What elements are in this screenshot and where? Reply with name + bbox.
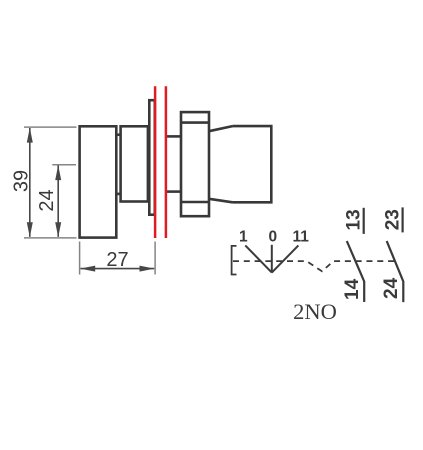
nut bottom band line — [181, 201, 209, 204]
contact NO1 blade and terminal 14 lead — [347, 241, 364, 302]
button cap — [80, 126, 117, 237]
svg-text:11: 11 — [293, 229, 310, 246]
svg-text:24: 24 — [381, 277, 402, 299]
svg-text:2NO: 2NO — [293, 299, 337, 324]
svg-text:14: 14 — [342, 278, 363, 300]
extension tick (24) — [52, 164, 76, 166]
svg-text:24: 24 — [36, 189, 58, 211]
arrow 27 right — [140, 266, 155, 272]
bezel — [121, 126, 148, 201]
arrow 24 down — [55, 222, 61, 237]
dimension line 24 — [57, 166, 59, 237]
svg-text:1: 1 — [239, 229, 248, 246]
svg-text:13: 13 — [344, 209, 365, 230]
neck top line — [116, 133, 120, 136]
dimension line 27 — [81, 268, 155, 270]
arrow 27 left — [80, 266, 95, 272]
panel line right (red) — [165, 86, 168, 238]
nut top band line — [181, 121, 209, 124]
mount stub top — [166, 135, 181, 138]
arrow 24 up — [55, 165, 61, 180]
cone top — [209, 126, 233, 131]
neck bottom line — [116, 193, 120, 196]
extension line bottom (39/24) — [24, 237, 77, 239]
svg-text:27: 27 — [106, 249, 128, 271]
arrow 39 up — [27, 128, 33, 143]
selector right arm — [272, 245, 299, 272]
extension line right (27) — [154, 242, 156, 275]
dimension line 39 — [29, 128, 31, 237]
svg-text:0: 0 — [268, 229, 277, 246]
mount stub bottom — [166, 190, 181, 193]
contact NO2 blade and terminal 24 lead — [387, 241, 404, 302]
selector center line — [271, 245, 273, 273]
mounting flange — [149, 100, 155, 215]
contact NO2 terminal 23 lead — [402, 207, 404, 232]
svg-text:23: 23 — [383, 209, 404, 230]
body nut — [181, 112, 209, 216]
knob body — [233, 126, 272, 202]
mechanical linkage dashed line — [233, 261, 395, 271]
contact NO1 terminal 13 lead — [363, 208, 365, 234]
extension line top (39) — [24, 126, 77, 128]
panel line left (red) — [154, 86, 157, 238]
arrow 39 down — [27, 222, 33, 237]
svg-text:39: 39 — [11, 170, 33, 192]
operator bracket — [232, 246, 237, 275]
selector left arm — [245, 245, 271, 272]
cone bottom — [209, 199, 233, 203]
extension line left (27) — [79, 242, 81, 275]
